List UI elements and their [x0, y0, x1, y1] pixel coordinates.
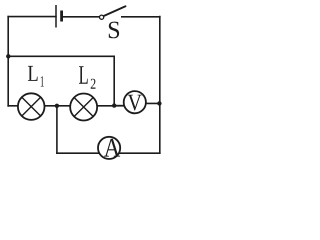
label S switch	[109, 22, 119, 39]
switch blade	[104, 6, 126, 16]
lamp L1 circle	[18, 93, 45, 120]
wire battery to switch	[63, 16, 100, 18]
lamp L2 cross	[74, 97, 93, 116]
wire right side vertical	[159, 17, 161, 154]
label L2 subscript 2	[91, 79, 96, 89]
voltmeter V circle	[124, 91, 146, 113]
label L2 letter L	[79, 66, 88, 84]
wire branch horizontal from node P	[8, 55, 114, 57]
lamp L2 circle	[70, 94, 97, 121]
battery long plate	[55, 5, 57, 28]
switch pivot circle	[100, 15, 104, 19]
label L1 letter L	[28, 66, 38, 81]
wire node Q to voltmeter	[114, 105, 127, 107]
lamp L1 cross	[22, 97, 41, 116]
ammeter letter A	[104, 139, 120, 157]
wire switch to top-right corner	[122, 16, 160, 18]
wire bottom row	[57, 152, 160, 154]
wire voltmeter to right wire	[142, 102, 160, 104]
node M junction dot	[55, 104, 59, 108]
wire lamp row	[8, 105, 126, 107]
wire top left: corner to battery	[8, 16, 56, 18]
wire branch vertical down to node Q	[113, 56, 115, 105]
node P junction dot	[6, 54, 10, 58]
battery short thick plate	[60, 11, 63, 22]
label L1 subscript 1	[41, 76, 44, 86]
voltmeter letter V	[128, 95, 142, 111]
wire node M down	[56, 106, 58, 153]
ammeter circle	[98, 137, 120, 159]
wire left side vertical	[7, 17, 9, 106]
node Q junction dot	[112, 103, 116, 107]
node R junction dot	[157, 101, 161, 105]
